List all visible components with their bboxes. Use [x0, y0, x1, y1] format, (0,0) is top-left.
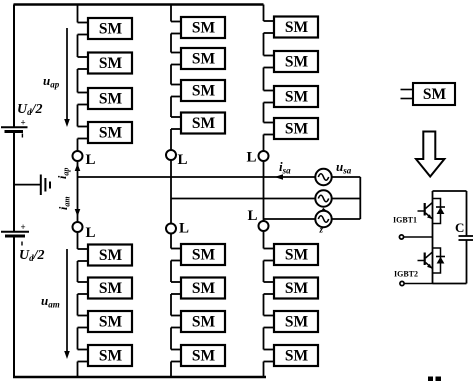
svg-text:+: + — [21, 222, 26, 232]
svg-text:SM: SM — [285, 247, 309, 264]
svg-text:SM: SM — [99, 125, 123, 142]
svg-text:SM: SM — [285, 121, 309, 138]
svg-text:SM: SM — [99, 348, 123, 365]
svg-text:SM: SM — [192, 348, 216, 365]
svg-text:SM: SM — [192, 115, 216, 132]
svg-text:L: L — [247, 150, 257, 166]
svg-text:SM: SM — [285, 89, 309, 106]
svg-text:SM: SM — [192, 314, 216, 331]
svg-text:SM: SM — [285, 348, 309, 365]
svg-text:SM: SM — [99, 21, 123, 38]
svg-text:IGBT2: IGBT2 — [394, 270, 418, 279]
svg-text:SM: SM — [192, 20, 216, 37]
svg-text:+: + — [21, 118, 26, 128]
svg-text:C: C — [455, 220, 464, 235]
svg-text:SM: SM — [285, 314, 309, 331]
svg-text:SM: SM — [192, 83, 216, 100]
svg-text:L: L — [178, 152, 188, 168]
svg-text:SM: SM — [192, 280, 216, 297]
svg-text:SM: SM — [285, 19, 309, 36]
svg-text:SM: SM — [423, 86, 447, 103]
svg-text:L: L — [86, 152, 96, 168]
svg-text:L: L — [248, 208, 258, 224]
svg-text:SM: SM — [285, 280, 309, 297]
svg-text:L: L — [179, 221, 189, 237]
svg-text:L: L — [86, 225, 96, 241]
svg-text:SM: SM — [192, 247, 216, 264]
svg-text:SM: SM — [99, 314, 123, 331]
svg-text:SM: SM — [99, 55, 123, 72]
svg-text:SM: SM — [99, 247, 123, 264]
svg-text:SM: SM — [99, 280, 123, 297]
svg-text:SM: SM — [99, 91, 123, 108]
svg-text:IGBT1: IGBT1 — [393, 216, 417, 225]
svg-text:SM: SM — [192, 51, 216, 68]
svg-text:z: z — [319, 225, 324, 235]
svg-text:SM: SM — [285, 54, 309, 71]
